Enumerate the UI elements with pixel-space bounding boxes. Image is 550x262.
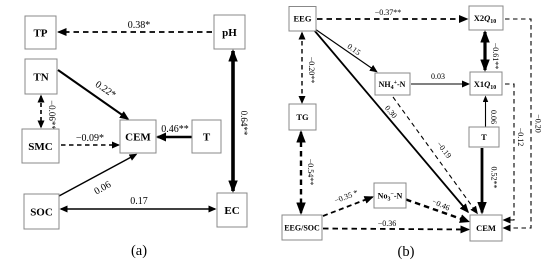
svg-text:0.06: 0.06 (489, 110, 498, 124)
svg-text:TG: TG (296, 112, 309, 122)
svg-text:EC: EC (224, 205, 239, 217)
wire EEG<->TG dashed -0.20** (301, 33, 303, 103)
wire SOC->CEM solid 0.06 (59, 155, 136, 197)
wire NO3-N->CEM dashed -0.46 (406, 200, 469, 222)
wire pH->TP dashed 0.38* (59, 31, 213, 33)
box X2Q10 (469, 6, 503, 30)
box TG (289, 104, 316, 130)
svg-text:0.03: 0.03 (431, 72, 445, 81)
box EEG/SOC (282, 215, 322, 240)
svg-text:−0.54**: −0.54** (306, 159, 315, 186)
box CEM (120, 120, 156, 153)
box pH (214, 15, 245, 49)
svg-text:CEM: CEM (476, 223, 496, 233)
wire EEG->X2Q10 dashed -0.37** (317, 18, 467, 20)
wire NH4-N->CEM dashed -0.19 (393, 97, 477, 213)
box NH4+-N (375, 73, 410, 95)
wire SMC->CEM dashed -0.09* (61, 144, 119, 146)
wire SOC<->EC solid 0.17 (61, 208, 215, 210)
wire EEG/SOC->CEM dashed -0.36 (323, 229, 469, 230)
box TN (25, 59, 57, 94)
box X1Q10 (470, 72, 502, 95)
wire NH4-N->X1Q10 solid 0.03 (411, 83, 469, 85)
box TP (25, 16, 56, 49)
box SMC (22, 129, 59, 163)
svg-text:SMC: SMC (28, 141, 53, 153)
svg-text:0.17: 0.17 (130, 196, 148, 207)
svg-text:TP: TP (33, 28, 47, 40)
svg-text:−0.36: −0.36 (378, 219, 397, 228)
wire EEG/SOC->NO3-N dashed -0.35* (323, 197, 373, 216)
svg-text:(a): (a) (131, 243, 147, 259)
svg-text:T: T (203, 132, 211, 144)
wire T->X1Q10 solid 0.06 (485, 97, 487, 127)
svg-text:(b): (b) (398, 244, 415, 260)
wire pH<->EC thick 0.64** (231, 51, 235, 191)
wire TN<->SMC dashed -0.06** (40, 96, 42, 127)
svg-text:0.52**: 0.52** (490, 167, 499, 189)
wire T->CEM solid 0.46** (158, 136, 193, 139)
wire X2Q10<->X1Q10 thick -0.61** (483, 32, 486, 70)
box CEM (b) (470, 215, 502, 241)
box T (192, 120, 221, 153)
svg-text:−0.20: −0.20 (534, 114, 543, 133)
svg-text:EEG/SOC: EEG/SOC (284, 223, 320, 232)
box SOC (24, 194, 59, 229)
svg-text:−0.09*: −0.09* (76, 133, 104, 144)
wire T->CEM thick 0.52** (481, 148, 484, 213)
svg-text:0.64**: 0.64** (239, 111, 249, 136)
svg-text:0.38*: 0.38* (128, 20, 151, 31)
svg-text:−0.12: −0.12 (516, 128, 525, 147)
svg-text:EEG: EEG (294, 14, 312, 24)
wire TN->CEM solid 0.22* (58, 70, 128, 119)
svg-text:−0.06**: −0.06** (47, 100, 57, 130)
wire X1Q10->CEM dashed -0.12 (504, 84, 514, 220)
wire EEG->CEM solid 0.30 (314, 30, 468, 212)
svg-text:CEM: CEM (125, 132, 151, 144)
box EC (217, 193, 247, 227)
svg-text:SOC: SOC (30, 207, 53, 219)
wire EEG->NH4-N solid 0.15 (315, 29, 377, 72)
svg-text:−0.61**: −0.61** (491, 43, 500, 70)
wire TG<->EEG/SOC dashed -0.54** (300, 132, 302, 213)
box EEG (289, 7, 316, 32)
svg-text:TN: TN (33, 72, 48, 84)
svg-text:−0.37**: −0.37** (375, 8, 402, 17)
wire X2Q10->CEM dashed -0.20 (504, 19, 531, 228)
box NO3--N (374, 183, 406, 208)
svg-text:0.46**: 0.46** (161, 124, 189, 135)
box T (b) (469, 127, 499, 147)
svg-text:pH: pH (222, 27, 237, 39)
svg-text:−0.20**: −0.20** (307, 57, 316, 84)
svg-text:T: T (481, 132, 487, 142)
